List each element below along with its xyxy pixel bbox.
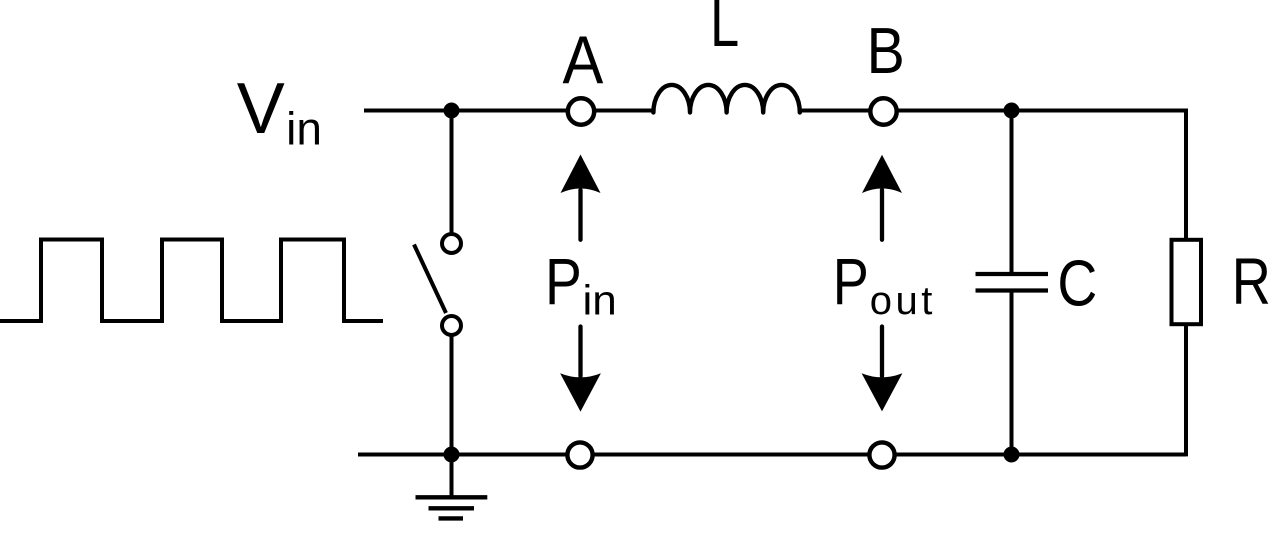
svg-text:P: P [833,244,869,318]
svg-text:R: R [1232,244,1271,318]
svg-text:in: in [286,102,322,154]
svg-text:P: P [545,244,582,318]
svg-text:in: in [582,277,616,324]
svg-text:A: A [562,21,604,98]
svg-text:L: L [710,0,739,60]
svg-text:V: V [237,69,285,149]
svg-text:B: B [867,15,905,87]
svg-text:C: C [1057,246,1097,319]
svg-text:out: out [870,279,936,323]
